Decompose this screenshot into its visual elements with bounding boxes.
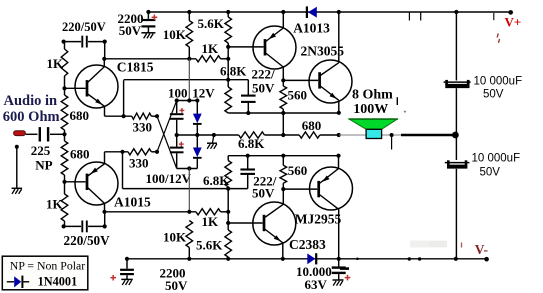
- svg-text:1N4001: 1N4001: [38, 275, 78, 289]
- legend box: [2, 256, 88, 290]
- ground below 2200uF-bot: [121, 278, 133, 280]
- node A1015 base junction: [62, 180, 66, 184]
- node cap-right corner: [103, 40, 107, 44]
- artifact small tick on rail: [356, 258, 359, 261]
- artifact dot: [404, 111, 406, 113]
- node 1K-low right junction: [226, 210, 230, 214]
- zener ZD1 lead2: [196, 124, 198, 148]
- node input junction: [62, 132, 66, 136]
- ground below 63V cap: [333, 279, 344, 281]
- wire bias line down lower: [188, 169, 190, 212]
- svg-text:10K: 10K: [163, 230, 187, 245]
- wire input to cap: [26, 133, 38, 135]
- node emitter-B junction: [337, 111, 341, 115]
- node rail-5.6K-low junction: [226, 257, 230, 261]
- svg-text:50V: 50V: [165, 278, 188, 293]
- node 560-low top junction: [281, 154, 285, 158]
- wire bottom-left bias: [64, 225, 81, 227]
- svg-text:V+: V+: [505, 15, 522, 30]
- capacitor 100uF-low lead2: [176, 153, 178, 168]
- svg-text:6.8K: 6.8K: [203, 173, 230, 188]
- resistor 10K upper body: [186, 21, 193, 47]
- svg-text:100/12V: 100/12V: [146, 171, 192, 186]
- svg-text:50V: 50V: [119, 23, 142, 38]
- artifact red marks below V+: [497, 34, 498, 38]
- wire MJ2955 base: [283, 188, 317, 190]
- wire stub artifact c: [493, 13, 495, 20]
- wire C2383 collector: [264, 204, 283, 218]
- node C1815 base junction: [62, 86, 66, 90]
- node 1K left junction: [187, 57, 191, 61]
- wire 330 to X: [151, 115, 157, 117]
- wire A1015 collector: [87, 187, 105, 203]
- artifact dot rail b: [418, 257, 421, 260]
- node A1013 base junction: [226, 45, 230, 49]
- svg-text:1K: 1K: [47, 56, 65, 71]
- node top-left corner: [62, 40, 66, 44]
- arrow A1013 emitter: [269, 33, 276, 39]
- ground midrail: [207, 142, 217, 144]
- svg-text:560: 560: [288, 163, 308, 178]
- wire 1K-low right: [221, 211, 229, 213]
- svg-text:6.8K: 6.8K: [220, 64, 247, 79]
- capacitor 222/50V lower lead: [247, 156, 249, 169]
- wire X diagonal B: [157, 101, 177, 152]
- node zbottom junction: [187, 166, 191, 170]
- capacitor 222/50V lower lead2: [247, 175, 249, 189]
- resistor 330 upper body: [132, 113, 152, 119]
- wire cap column bottom: [455, 169, 457, 259]
- node X bottom: [155, 150, 159, 154]
- svg-text:NP: NP: [35, 158, 52, 173]
- wire 560-low stub: [282, 156, 284, 166]
- speaker magnet: [366, 129, 382, 138]
- wire 10K to 1K junction: [188, 47, 190, 59]
- wire MJ2955 emitter: [319, 169, 339, 184]
- wire zener-bottom: [177, 168, 198, 170]
- wire left column seg5: [64, 221, 66, 226]
- node Ap junction: [226, 187, 230, 191]
- node cap-right corner bottom: [103, 224, 107, 228]
- ground input: [12, 187, 22, 189]
- node midrail ground junction: [212, 133, 216, 137]
- node rail-2200低 junction: [125, 257, 129, 261]
- transistor MJ2955 body: [310, 167, 353, 210]
- resistor 1K upper-left body: [61, 49, 68, 76]
- node A1015 collector-wire junction: [102, 210, 106, 214]
- wire top-left bias: [64, 41, 81, 43]
- wire C1815 base: [65, 87, 86, 89]
- wire A1015 base: [65, 181, 86, 183]
- svg-text:5.6K: 5.6K: [198, 16, 225, 31]
- node rail-A1013 emitter junction: [281, 10, 285, 14]
- resistor 560 upper body: [280, 86, 287, 109]
- resistor 680 upper body: [61, 95, 68, 130]
- svg-text:A1013: A1013: [293, 21, 330, 36]
- node rail-MJ2955 collector junction: [337, 257, 341, 261]
- wire A1013 collector: [265, 53, 283, 68]
- wire node-Ap: [123, 188, 248, 190]
- wire left column seg2: [64, 76, 66, 95]
- node rail-2N3055 collector junction: [337, 10, 341, 14]
- wire 1K-low left wire: [105, 211, 197, 213]
- svg-text:225: 225: [31, 143, 51, 158]
- capacitor C-63V polarity +: [345, 277, 351, 279]
- artifact dash below rail: [340, 267, 349, 270]
- wire 5.6K-low lead: [227, 257, 229, 259]
- wire 560-low to base: [282, 183, 284, 189]
- wire V+ top rail: [148, 11, 510, 13]
- capacitor C-63V plates: [332, 266, 346, 268]
- resistor 1K lower body: [196, 209, 221, 215]
- svg-text:1K: 1K: [46, 197, 64, 212]
- wire 222-top lead2: [247, 103, 249, 113]
- node speaker junction: [390, 133, 394, 137]
- svg-text:680: 680: [70, 147, 90, 162]
- wire mid rail left: [177, 134, 239, 136]
- wire mid rail d: [320, 134, 339, 136]
- node emitter stub junction bottom: [120, 150, 124, 154]
- wire 560 to node B: [282, 109, 284, 135]
- diode D1 on V+ rail (pointing left): [308, 7, 317, 18]
- svg-text:63V: 63V: [305, 277, 328, 292]
- node rail-C2383 emitter junction: [281, 257, 285, 261]
- wire A1013 base: [228, 46, 263, 48]
- resistor 1K upper body: [196, 56, 221, 62]
- arrow C1815 emitter: [95, 99, 102, 105]
- node rail-capline junction: [454, 10, 458, 14]
- wire zener-top: [177, 100, 198, 102]
- svg-text:50V: 50V: [483, 89, 504, 101]
- ground below 2200uF-top: [141, 32, 155, 34]
- wire left column seg1: [64, 42, 66, 49]
- node rail-2200 junction: [146, 10, 150, 14]
- transistor A1013 body: [253, 26, 296, 69]
- capacitor 220/50V bottom plates: [81, 221, 83, 233]
- wire MJ2955 collector: [319, 194, 339, 209]
- svg-text:330: 330: [129, 156, 149, 171]
- node zdiode corner: [195, 98, 199, 102]
- transistor C2383 body: [253, 202, 296, 245]
- wire node-Bp: [228, 155, 338, 157]
- svg-text:600 Ohm: 600 Ohm: [3, 109, 60, 125]
- resistor 5.6K lower body: [225, 230, 232, 257]
- node rail-capline-low junction: [454, 257, 458, 261]
- wire left column seg3: [64, 130, 66, 141]
- wire 330 to X lower: [151, 151, 157, 153]
- node rail-10K junction: [187, 10, 191, 14]
- resistor 5.6K upper body: [225, 17, 232, 43]
- wire C1815 collector: [87, 67, 104, 83]
- node midrail-560col junction: [281, 133, 285, 137]
- resistor 6.8K mid body: [239, 132, 265, 138]
- capacitor C-10000uF-2: [445, 162, 470, 164]
- capacitor C-2200uF-top lead: [147, 12, 149, 19]
- svg-text:C2383: C2383: [289, 237, 326, 252]
- wire stub artifact a: [408, 12, 410, 21]
- node input ground dot: [15, 145, 19, 149]
- resistor 10K lower body: [186, 221, 193, 248]
- node collector-wire junction: [102, 57, 106, 61]
- capacitor C-2200uF-bot lead: [126, 259, 128, 269]
- wire A1015 emitter run: [105, 151, 129, 153]
- svg-text:1K: 1K: [202, 41, 220, 56]
- svg-text:V-: V-: [475, 242, 488, 257]
- wire 2N3055 collector: [320, 63, 339, 76]
- svg-text:100W: 100W: [353, 102, 388, 117]
- artifact red colon: [461, 243, 463, 248]
- wire bias line down: [188, 59, 190, 101]
- node 1K right junction: [226, 57, 230, 61]
- svg-text:Audio in: Audio in: [4, 93, 58, 109]
- node emitter-Bp junction: [336, 154, 340, 158]
- node emitter stub junction top: [122, 114, 126, 118]
- node rail end terminal V-: [484, 257, 489, 262]
- capacitor 100uF-up polarity +: [180, 109, 185, 111]
- wire mid rail c: [264, 134, 299, 136]
- svg-text:330: 330: [133, 120, 153, 135]
- capacitor C-2200uF-top lead2: [147, 28, 149, 33]
- wire 1K to 5.6K line: [221, 58, 229, 60]
- zener ZD1 triangle: [193, 114, 202, 124]
- capacitor C-2200uF-bot lead2: [126, 275, 128, 279]
- capacitor 100uF-low polarity +: [179, 143, 184, 145]
- svg-text:8 Ohm: 8 Ohm: [352, 88, 393, 103]
- resistor 680 mid body: [299, 132, 320, 138]
- capacitor 222/50V upper plates: [241, 95, 256, 97]
- svg-text:10 000uF: 10 000uF: [472, 153, 521, 165]
- node rail-10K-low junction: [187, 257, 191, 261]
- capacitor C-2200uF-bot polarity +: [110, 277, 116, 279]
- svg-text:1K: 1K: [202, 214, 220, 229]
- wire 5.6K top lead: [227, 12, 229, 17]
- wire 5.6K to node A: [227, 43, 229, 87]
- svg-text:680: 680: [302, 118, 322, 133]
- svg-text:C1815: C1815: [117, 60, 154, 75]
- transistor 2N3055 body: [309, 60, 352, 103]
- wire 10K-low lead: [188, 248, 190, 259]
- wire emitter stub down: [122, 152, 124, 189]
- svg-text:6.8K: 6.8K: [238, 136, 265, 151]
- node 222-low top junction: [246, 154, 250, 158]
- svg-text:5.6K: 5.6K: [196, 238, 223, 253]
- resistor 680 lower body: [61, 141, 68, 175]
- arrow C2383 emitter: [274, 235, 281, 241]
- zener ZD2 triangle: [193, 148, 202, 158]
- capacitor C-63V lead: [338, 259, 340, 267]
- svg-text:220/50V: 220/50V: [62, 20, 106, 34]
- artifact dot rail a: [408, 257, 411, 260]
- svg-text:10K: 10K: [163, 27, 187, 42]
- svg-text:560: 560: [288, 88, 308, 103]
- wire midrail ground stub: [213, 135, 214, 143]
- capacitor 220/50V top plates: [81, 36, 83, 48]
- node C2383 base junction: [226, 221, 230, 225]
- artifact ghost text: [410, 241, 446, 248]
- wire left column seg4: [64, 175, 66, 194]
- transistor A1015 body: [75, 162, 118, 205]
- capacitor C-2200uF-top polarity +: [152, 16, 158, 18]
- svg-text:MJ2955: MJ2955: [295, 212, 342, 227]
- wire X diagonal A: [157, 116, 177, 168]
- wire input ground stub: [16, 147, 18, 188]
- node 100uF mid junction: [175, 133, 179, 137]
- wire C1815 emitter run: [105, 115, 132, 117]
- capacitor 100uF-up lead: [176, 101, 178, 114]
- capacitor C-63V lead2: [338, 274, 340, 280]
- node zener mid junction: [195, 133, 199, 137]
- arrow A1015 emitter: [90, 168, 97, 174]
- node 560-top junction: [281, 78, 285, 82]
- node 560-B junction: [281, 111, 285, 115]
- node big output junction: [452, 132, 459, 139]
- node zener-top junction: [187, 98, 191, 102]
- wire mid rail gray: [339, 134, 401, 136]
- wire 2N3055 base: [283, 79, 318, 81]
- wire collector node to 1K: [104, 58, 196, 60]
- resistor 6.8K lower body: [225, 161, 232, 187]
- diode D2 on V- rail (pointing right): [307, 253, 315, 264]
- svg-text:10 000uF: 10 000uF: [474, 76, 523, 88]
- svg-text:680: 680: [70, 108, 90, 123]
- wire speaker stub: [391, 135, 393, 150]
- capacitor 100uF-up lead2: [176, 120, 178, 147]
- node rail-5.6K junction: [226, 10, 230, 14]
- resistor 1K lower-left body: [61, 194, 68, 221]
- node 1K-low left junction: [187, 210, 191, 214]
- wire cap to collector node bottom: [104, 212, 106, 227]
- wire A1013 emitter: [265, 28, 283, 42]
- capacitor 100uF-low plates: [170, 147, 184, 149]
- wire A1015 emitter: [87, 164, 105, 177]
- node zcap corner: [175, 98, 179, 102]
- speaker cone: [349, 119, 397, 129]
- terminal input (red): [14, 131, 26, 136]
- zener ZD1 lead: [196, 101, 198, 115]
- svg-text:NP = Non Polar: NP = Non Polar: [10, 258, 85, 272]
- resistor 560 lower body: [280, 165, 287, 183]
- wire 222-top corner: [247, 80, 249, 95]
- capacitor C-10000uF-1: [444, 81, 471, 83]
- node MJ2955 base-560 junction: [281, 187, 285, 191]
- zener ZD2 lead3: [196, 158, 198, 169]
- node bottom-left corner: [62, 224, 66, 228]
- svg-text:12V: 12V: [192, 86, 215, 101]
- wire node-A: [124, 79, 249, 81]
- wire 6.8K-low stub: [227, 156, 229, 161]
- svg-text:100: 100: [168, 86, 188, 101]
- wire V- bottom rail: [127, 258, 487, 260]
- node 6.8K top junction: [226, 78, 230, 82]
- artifact tick near 8 Ohm: [396, 97, 398, 105]
- wire cap to collector node: [104, 42, 106, 59]
- wire 2N3055 emitter: [320, 86, 339, 101]
- resistor 6.8K upper body: [225, 87, 232, 113]
- svg-text:220/50V: 220/50V: [64, 233, 111, 248]
- node rail end terminal: [508, 10, 513, 15]
- legend diode 1N4001 symbol: [7, 281, 14, 283]
- svg-text:50V: 50V: [252, 81, 275, 96]
- svg-text:A1015: A1015: [114, 195, 151, 210]
- capacitor 222/50V lower plates: [240, 168, 255, 170]
- capacitor C-2200uF-bot plates: [120, 269, 134, 271]
- capacitor 100uF-up plates: [170, 113, 184, 115]
- wire stub artifact b: [420, 12, 422, 21]
- arrow MJ2955 emitter: [322, 176, 329, 182]
- wire cap column top: [455, 12, 457, 81]
- wire C2383 base: [228, 222, 262, 224]
- svg-text:2N3055: 2N3055: [301, 44, 345, 59]
- arrow 2N3055 emitter: [330, 93, 337, 99]
- wire 6.8K-low to Ap: [227, 187, 229, 230]
- wire C1815 emitter: [87, 94, 105, 107]
- wire 10K column top: [188, 12, 190, 21]
- transistor C1815 body: [75, 65, 118, 108]
- svg-text:50V: 50V: [252, 186, 275, 201]
- svg-text:50V: 50V: [480, 167, 501, 179]
- capacitor 225NP plates: [39, 127, 41, 141]
- node midrail-output junction: [337, 133, 341, 137]
- wire cap to node: [50, 133, 65, 135]
- node X top: [155, 114, 159, 118]
- node 222-top bottom junction: [246, 111, 250, 115]
- resistor 330 lower body: [128, 149, 151, 155]
- wire emitter stub up: [123, 80, 125, 116]
- wire cap column mid: [455, 88, 457, 160]
- wire C2383 emitter: [264, 229, 283, 243]
- wire node-B: [228, 112, 339, 114]
- capacitor C-2200uF-top plates: [141, 19, 155, 21]
- wire mid rail thick: [401, 134, 455, 137]
